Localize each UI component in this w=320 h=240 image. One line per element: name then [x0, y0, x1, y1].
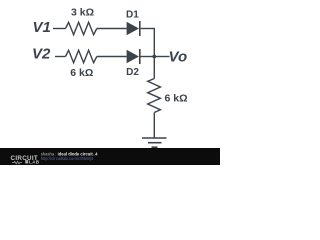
svg-text:V2: V2: [32, 45, 51, 62]
svg-text:6 kΩ: 6 kΩ: [70, 67, 93, 79]
svg-text:D2: D2: [126, 67, 139, 78]
svg-text:D1: D1: [126, 10, 139, 21]
svg-text:6 kΩ: 6 kΩ: [165, 93, 188, 105]
svg-text:http://circuitlab.com/c/65Wj4: http://circuitlab.com/c/65Wj4: [41, 156, 94, 161]
svg-text:3 kΩ: 3 kΩ: [71, 7, 94, 19]
svg-text:Vo: Vo: [169, 48, 188, 65]
svg-text:LAB: LAB: [29, 159, 40, 164]
svg-text:V1: V1: [33, 19, 51, 36]
